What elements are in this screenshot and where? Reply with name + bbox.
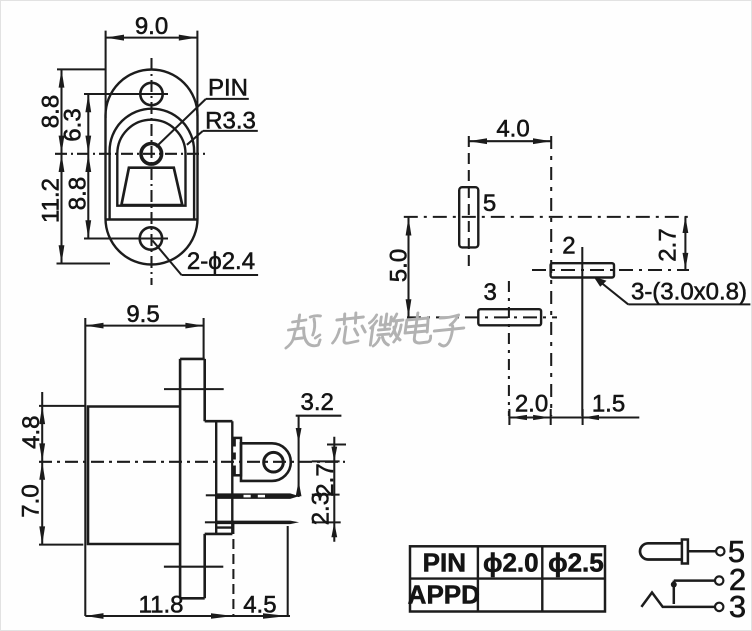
dimension 11.2 bbox=[38, 154, 65, 264]
pad5 vertical centerline bbox=[468, 136, 470, 268]
terminal 5 circle bbox=[716, 547, 724, 555]
watermark char dian bbox=[404, 313, 434, 343]
horizontal centerline through pad 3 bbox=[407, 316, 557, 318]
dimension 9.5 bbox=[85, 301, 203, 616]
terminal 2 label bbox=[729, 562, 746, 597]
bottom dimension line bbox=[508, 409, 639, 425]
reference line upper bbox=[164, 388, 224, 390]
lead to terminal 2 with contact arm bbox=[671, 581, 715, 604]
outer arch R3.3 bbox=[105, 109, 198, 220]
svg-text:PIN: PIN bbox=[423, 548, 466, 578]
inner strip bbox=[216, 421, 232, 534]
terminal 5 label bbox=[728, 534, 745, 569]
oval flange outline bbox=[106, 70, 198, 265]
svg-text:7.0: 7.0 bbox=[18, 484, 45, 517]
terminal hole bbox=[264, 452, 284, 472]
pad 5 bbox=[459, 187, 478, 247]
vertical centerline bbox=[150, 58, 152, 285]
svg-text:4.5: 4.5 bbox=[243, 591, 276, 618]
dimension 2.7 / 2.3 ticks bbox=[312, 437, 346, 542]
pin 1 bbox=[206, 493, 299, 499]
dimension 5.0 bbox=[386, 217, 413, 317]
body outline bbox=[88, 407, 180, 545]
dimension 3.2 with leader bbox=[296, 389, 342, 497]
label PIN with leader bbox=[156, 75, 249, 148]
extension line top hole bbox=[84, 93, 168, 95]
dimension 2.0 bbox=[509, 391, 550, 421]
leader 3-(3.0x0.8) bbox=[594, 277, 751, 306]
label 2 bbox=[562, 233, 575, 260]
watermark char zi bbox=[432, 315, 465, 346]
svg-text:5.0: 5.0 bbox=[386, 249, 413, 282]
dimension 8.8 lower bbox=[65, 154, 92, 239]
svg-text:9.5: 9.5 bbox=[126, 301, 159, 328]
svg-text:5: 5 bbox=[483, 190, 496, 217]
svg-text:3: 3 bbox=[729, 589, 746, 624]
dimension 1.5 bbox=[583, 391, 626, 421]
pin terminal block bbox=[241, 443, 291, 481]
center pin circle bbox=[141, 144, 162, 165]
extension line bottom hole bbox=[84, 237, 168, 239]
cell phi2.5 bbox=[548, 548, 604, 578]
svg-text:ϕ2.0: ϕ2.0 bbox=[483, 548, 539, 578]
cell APPD bbox=[408, 580, 480, 610]
top mounting hole bbox=[140, 83, 162, 105]
svg-text:4.8: 4.8 bbox=[18, 416, 45, 449]
svg-text:2.3: 2.3 bbox=[308, 492, 335, 525]
bottom mounting hole bbox=[140, 227, 162, 249]
dimension 2.3 side bbox=[308, 492, 335, 525]
watermark char xin bbox=[333, 313, 368, 343]
dimension 7.0 bbox=[18, 462, 84, 545]
dimension 2.7 footprint bbox=[655, 216, 689, 269]
cell PIN bbox=[423, 548, 466, 578]
terminal 2 circle bbox=[715, 576, 723, 584]
svg-text:2-ϕ2.4: 2-ϕ2.4 bbox=[187, 248, 255, 275]
svg-text:2.7: 2.7 bbox=[655, 228, 682, 261]
dimension 2.7 side bbox=[312, 463, 339, 496]
horizontal centerline through pad 5 bbox=[404, 216, 689, 218]
cell phi2.0 bbox=[483, 548, 539, 578]
svg-text:8.8: 8.8 bbox=[65, 177, 92, 210]
svg-text:3: 3 bbox=[484, 279, 497, 306]
dimension 4.0 bbox=[469, 116, 551, 145]
plug barrel bbox=[640, 543, 682, 559]
svg-text:ϕ2.5: ϕ2.5 bbox=[548, 548, 604, 578]
pad2 center extension line bbox=[581, 247, 583, 416]
pin 2 bbox=[205, 521, 299, 525]
main vertical centerline bbox=[550, 136, 552, 416]
pad3 vertical centerline bbox=[508, 281, 510, 416]
pad 3 bbox=[478, 309, 541, 325]
svg-text:4.0: 4.0 bbox=[496, 116, 529, 143]
dimension 4.8 bbox=[18, 392, 86, 475]
label R3.3 with leader bbox=[187, 108, 258, 145]
trapezoid key inside arch bbox=[121, 168, 182, 205]
svg-text:2: 2 bbox=[562, 233, 575, 260]
extension line oval bottom bbox=[57, 262, 111, 264]
svg-text:1.5: 1.5 bbox=[592, 391, 625, 418]
svg-text:3.2: 3.2 bbox=[301, 389, 334, 416]
svg-text:11.8: 11.8 bbox=[139, 592, 184, 619]
watermark char wei bbox=[366, 314, 403, 346]
svg-text:11.2: 11.2 bbox=[38, 178, 65, 223]
svg-text:6.3: 6.3 bbox=[60, 108, 87, 141]
bottom dimension line 11.8 / 4.5 bbox=[85, 524, 290, 619]
label 3 bbox=[484, 279, 497, 306]
flange plate bbox=[180, 359, 232, 598]
reference line lower bbox=[164, 566, 223, 568]
svg-text:3-(3.0x0.8): 3-(3.0x0.8) bbox=[631, 279, 747, 306]
lead to terminal 3 with spring contact bbox=[641, 593, 714, 607]
lead to terminal 5 bbox=[688, 550, 716, 553]
svg-text:PIN: PIN bbox=[208, 75, 248, 102]
dimension 9.0 bbox=[106, 13, 198, 118]
contact teeth bbox=[233, 438, 241, 475]
label 5 bbox=[483, 190, 496, 217]
svg-text:R3.3: R3.3 bbox=[205, 108, 256, 135]
dimension 6.3 bbox=[60, 94, 92, 239]
horizontal centerline through pad 2 bbox=[532, 269, 689, 271]
svg-text:APPD: APPD bbox=[408, 580, 480, 610]
pad 2 bbox=[551, 263, 614, 277]
inner arch bbox=[117, 120, 185, 206]
svg-text:9.0: 9.0 bbox=[135, 13, 168, 40]
crossbar bbox=[682, 540, 688, 564]
label 2-phi2.4 with leader bbox=[153, 241, 259, 276]
axis centerline bbox=[39, 461, 345, 463]
table grid bbox=[410, 546, 605, 611]
extension line oval top bbox=[57, 68, 106, 70]
svg-text:2.7: 2.7 bbox=[312, 463, 339, 496]
svg-text:2.0: 2.0 bbox=[515, 391, 548, 418]
terminal 3 circle bbox=[715, 603, 723, 611]
horizontal centerline through pin bbox=[55, 153, 209, 155]
watermark char wu bbox=[286, 315, 324, 348]
terminal 3 label bbox=[729, 589, 746, 624]
dimension 8.8 upper left bbox=[38, 69, 65, 263]
